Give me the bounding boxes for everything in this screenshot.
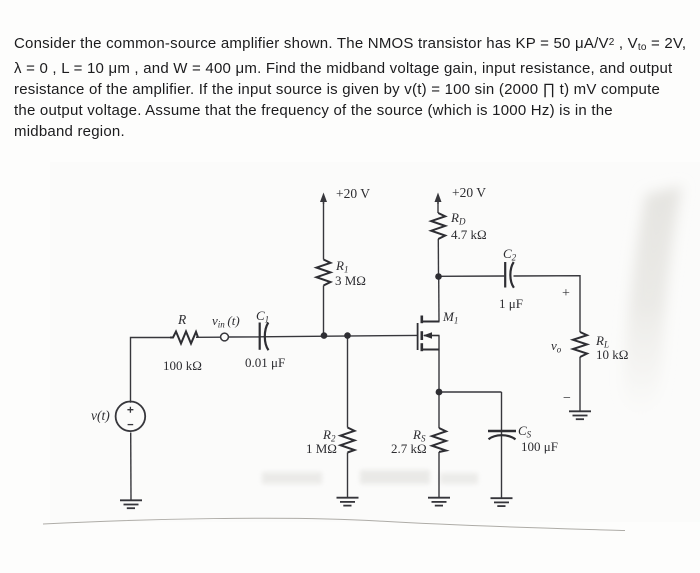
node drain xyxy=(435,273,442,280)
node A (gate junction with R1) xyxy=(321,332,328,339)
svg-text:+: + xyxy=(562,286,570,301)
svg-text:vin (t): vin (t) xyxy=(212,313,240,330)
wire: R2 bottom to ground xyxy=(347,453,349,498)
svg-text:3 MΩ: 3 MΩ xyxy=(335,273,366,288)
capacitor CS 100uF xyxy=(488,431,516,439)
svg-text:R: R xyxy=(177,312,187,327)
ground (R2) xyxy=(337,498,359,506)
wire: source node down to RS xyxy=(438,392,440,428)
wire: R2 branch down xyxy=(347,336,349,428)
svg-text:10 kΩ: 10 kΩ xyxy=(596,347,628,362)
ground (RL) xyxy=(569,411,591,419)
capacitor C1 0.01uF xyxy=(260,323,269,351)
wire: R1 branch up xyxy=(323,286,325,336)
resistor RS 2.7 kohm xyxy=(432,428,446,452)
wire: drain vertical to drain node xyxy=(438,277,440,322)
svg-text:0.01 μF: 0.01 μF xyxy=(245,355,285,370)
wire: C2 to RL corner xyxy=(514,276,581,332)
wire: RS bottom to ground xyxy=(438,452,440,498)
ground (source) xyxy=(120,500,142,508)
wire: RL bottom to ground xyxy=(579,357,581,411)
node B (gate junction with R2) xyxy=(344,332,351,339)
wire: C1 through gate line to transistor gate xyxy=(259,335,418,336)
svg-text:−: − xyxy=(563,391,571,406)
wire: source node right to CS column xyxy=(439,391,502,393)
resistor R (100 k) horizontal xyxy=(170,332,198,344)
supply +20V arrow (left) xyxy=(320,193,327,205)
resistor R2 1 Mohm xyxy=(341,428,355,453)
problem statement paragraph xyxy=(14,32,700,142)
wire: input resistor to vin node xyxy=(196,336,221,338)
ground (RS) xyxy=(428,498,450,506)
node vin(t) open circle xyxy=(221,333,229,341)
wire: RD top to +20V arrow xyxy=(437,201,439,213)
ground (CS) xyxy=(491,498,513,506)
wire: v(t) source up to input resistor xyxy=(131,338,171,403)
svg-text:1 μF: 1 μF xyxy=(499,296,523,311)
wire: drain node to C2 xyxy=(439,275,505,277)
supply +20V arrow (right) xyxy=(435,193,442,205)
svg-text:v(t): v(t) xyxy=(91,408,110,423)
svg-text:100 μF: 100 μF xyxy=(521,439,558,454)
capacitor C2 1uF xyxy=(505,262,514,288)
svg-text:4.7 kΩ: 4.7 kΩ xyxy=(451,227,487,242)
wire: transistor source vertical down to source node xyxy=(438,336,440,393)
wire: vin node to C1 xyxy=(229,336,260,338)
svg-text:2.7 kΩ: 2.7 kΩ xyxy=(391,441,427,456)
wire: R1 top to +20V arrow xyxy=(323,201,325,260)
svg-text:+20 V: +20 V xyxy=(452,185,486,200)
wire: v(t) source bottom to ground xyxy=(130,433,132,501)
wire: drain node up to RD xyxy=(437,239,439,277)
resistor R1 3 Mohm xyxy=(317,260,331,286)
node source xyxy=(436,389,443,396)
svg-text:+20 V: +20 V xyxy=(336,186,370,201)
transistor M1 xyxy=(418,316,440,352)
voltage source v(t) xyxy=(116,402,146,432)
svg-text:1 MΩ: 1 MΩ xyxy=(306,441,337,456)
svg-text:100 kΩ: 100 kΩ xyxy=(163,358,202,373)
resistor RD 4.7 kohm xyxy=(431,213,445,239)
wire: CS column down through plates to ground xyxy=(501,392,503,498)
resistor RL 10 kohm xyxy=(573,332,587,357)
